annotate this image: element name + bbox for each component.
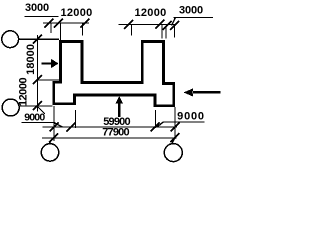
tick xyxy=(33,101,42,110)
svg-text:3000: 3000 xyxy=(179,5,203,17)
tick xyxy=(81,19,90,28)
leader under 9000 left xyxy=(21,122,54,124)
tick xyxy=(50,123,59,132)
dim line 77900 xyxy=(42,137,176,139)
grid bubble top-left xyxy=(2,31,19,48)
svg-text:77900: 77900 xyxy=(102,127,129,139)
tick xyxy=(54,19,63,28)
tick xyxy=(155,20,164,29)
svg-text:12000: 12000 xyxy=(60,7,92,19)
extension line right wall xyxy=(174,107,176,139)
svg-text:18000: 18000 xyxy=(25,44,37,75)
tick xyxy=(170,21,179,30)
tick xyxy=(124,20,133,29)
extension line xyxy=(173,26,175,38)
leader diagonal top-right xyxy=(172,17,176,25)
tick xyxy=(171,123,180,132)
dim line top-left xyxy=(43,22,89,24)
svg-text:12000: 12000 xyxy=(134,7,166,19)
extension line xyxy=(130,24,132,35)
leader under 3000 top-left xyxy=(25,15,59,17)
leader diagonal bubble bottom-right xyxy=(172,138,175,144)
leader under 9000 right xyxy=(164,121,205,123)
tick xyxy=(170,133,179,142)
up load arrow xyxy=(115,96,123,117)
leader diagonal bubble bottom-left xyxy=(49,139,53,145)
extension line xyxy=(60,23,62,40)
extension line xyxy=(161,24,163,38)
vertical dim line left xyxy=(36,35,38,112)
leader under 3000 top-right xyxy=(174,16,214,18)
extension line xyxy=(81,23,83,35)
extension line shoulder xyxy=(37,79,59,81)
leader diagonal 9000 right xyxy=(157,122,164,127)
tick xyxy=(49,133,58,142)
extension line right step xyxy=(154,110,156,128)
dim line 59900 chain xyxy=(42,126,177,128)
axis line top-left xyxy=(19,38,60,40)
leader diagonal 9000 left xyxy=(38,107,46,115)
svg-text:9000: 9000 xyxy=(177,111,205,123)
svg-text:3000: 3000 xyxy=(25,2,49,14)
grid bubble bottom-left xyxy=(41,144,58,161)
extension line left wall xyxy=(53,106,55,141)
right load arrow xyxy=(184,88,221,96)
grid bubble bottom-right xyxy=(164,144,182,162)
tick xyxy=(33,35,42,44)
tick xyxy=(33,75,42,84)
tick xyxy=(66,123,75,132)
leader diagonal to dim xyxy=(54,123,62,127)
axis line mid-left xyxy=(19,105,52,107)
tick xyxy=(44,19,53,28)
foundation outline xyxy=(54,41,174,105)
extension line left step xyxy=(75,110,77,128)
tick xyxy=(151,123,160,132)
dim line top-right xyxy=(119,23,177,25)
left load arrow xyxy=(42,59,59,68)
extension line xyxy=(165,26,167,39)
extension line xyxy=(50,23,52,33)
tick xyxy=(163,21,172,30)
grid bubble mid-left xyxy=(2,99,19,116)
svg-text:12000: 12000 xyxy=(18,78,30,107)
svg-text:9000: 9000 xyxy=(24,112,45,124)
